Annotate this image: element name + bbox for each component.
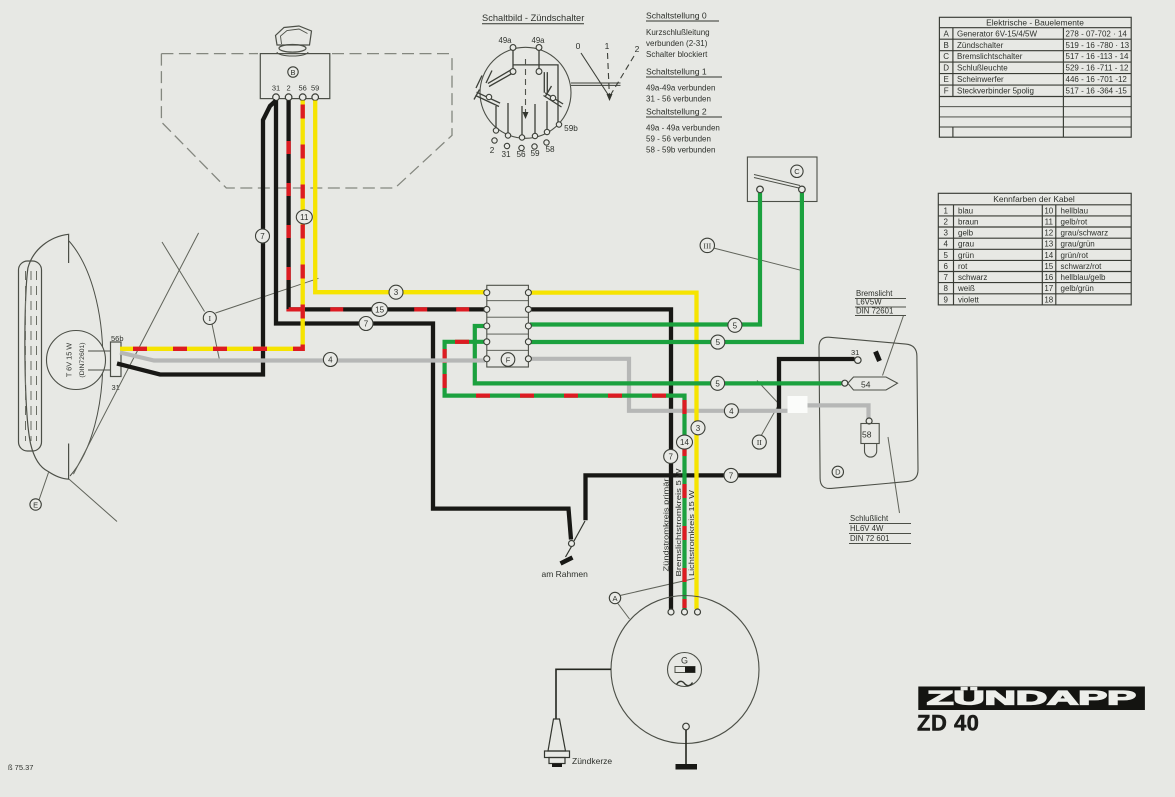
svg-text:violett: violett	[958, 295, 980, 304]
svg-text:56: 56	[516, 150, 526, 159]
svg-text:31: 31	[272, 84, 280, 93]
svg-text:D: D	[835, 468, 841, 477]
svg-text:9: 9	[943, 295, 948, 304]
svg-text:DIN 72 601: DIN 72 601	[850, 534, 889, 543]
svg-text:16: 16	[1044, 273, 1053, 282]
svg-text:C: C	[943, 52, 949, 61]
svg-text:schwarz: schwarz	[958, 273, 987, 282]
svg-text:5: 5	[715, 379, 720, 388]
svg-text:1: 1	[943, 206, 948, 215]
svg-text:braun: braun	[958, 217, 978, 226]
svg-text:4: 4	[943, 240, 948, 249]
svg-text:Schalter blockiert: Schalter blockiert	[646, 50, 708, 59]
svg-text:ß 75.37: ß 75.37	[8, 763, 33, 772]
svg-text:weiß: weiß	[957, 284, 975, 293]
svg-text:15: 15	[375, 305, 384, 314]
svg-text:517 - 16 -364 -15: 517 - 16 -364 -15	[1066, 87, 1128, 96]
svg-text:A: A	[612, 594, 617, 603]
svg-text:49a-49a verbunden: 49a-49a verbunden	[646, 84, 715, 93]
svg-text:5: 5	[943, 251, 948, 260]
svg-text:F: F	[506, 355, 511, 364]
svg-text:Schaltbild - Zündschalter: Schaltbild - Zündschalter	[482, 13, 584, 23]
svg-text:Zündstromkreis primär: Zündstromkreis primär	[662, 478, 671, 572]
svg-text:8: 8	[943, 284, 948, 293]
svg-text:59: 59	[311, 84, 319, 93]
svg-text:56b: 56b	[111, 334, 124, 343]
svg-text:31: 31	[501, 150, 511, 159]
svg-text:Kennfarben der Kabel: Kennfarben der Kabel	[993, 194, 1075, 204]
svg-text:Zündkerze: Zündkerze	[572, 756, 612, 766]
svg-text:13: 13	[1044, 240, 1053, 249]
svg-text:15: 15	[1044, 262, 1053, 271]
svg-text:58: 58	[862, 430, 872, 440]
svg-text:18: 18	[1044, 295, 1053, 304]
svg-text:A: A	[944, 29, 950, 38]
svg-text:11: 11	[1045, 217, 1054, 226]
svg-text:49a: 49a	[498, 36, 512, 45]
svg-text:B: B	[944, 41, 949, 50]
svg-text:14: 14	[1044, 251, 1053, 260]
svg-text:B: B	[290, 68, 295, 77]
svg-text:Steckverbinder 5polig: Steckverbinder 5polig	[957, 87, 1034, 96]
svg-text:schwarz/rot: schwarz/rot	[1061, 262, 1103, 271]
svg-text:278 - 07-702 · 14: 278 - 07-702 · 14	[1066, 29, 1128, 38]
svg-text:59 - 56 verbunden: 59 - 56 verbunden	[646, 135, 711, 144]
svg-text:ZD 40: ZD 40	[917, 711, 979, 736]
svg-text:31: 31	[851, 348, 859, 357]
svg-text:17: 17	[1044, 284, 1053, 293]
svg-text:D: D	[943, 64, 949, 73]
svg-text:Schlußleuchte: Schlußleuchte	[957, 64, 1008, 73]
svg-text:Bremslichtstromkreis 5 W: Bremslichtstromkreis 5 W	[674, 467, 683, 576]
svg-text:F: F	[944, 87, 949, 96]
svg-text:III: III	[703, 241, 711, 250]
svg-text:verbunden (2-31): verbunden (2-31)	[646, 39, 708, 48]
svg-text:gelb/grün: gelb/grün	[1061, 284, 1094, 293]
svg-text:7: 7	[668, 452, 673, 461]
svg-text:Zündschalter: Zündschalter	[957, 41, 1004, 50]
svg-text:519 - 16 -780 · 13: 519 - 16 -780 · 13	[1066, 41, 1130, 50]
svg-text:7: 7	[364, 320, 369, 329]
svg-text:Kurzschlußleitung: Kurzschlußleitung	[646, 28, 710, 37]
svg-text:ZÜNDAPP: ZÜNDAPP	[927, 687, 1136, 710]
svg-text:grau/schwarz: grau/schwarz	[1061, 229, 1109, 238]
svg-text:hellblau/gelb: hellblau/gelb	[1061, 273, 1106, 282]
svg-text:3: 3	[394, 288, 399, 297]
svg-text:gelb: gelb	[958, 229, 974, 238]
svg-text:4: 4	[729, 407, 734, 416]
svg-text:0: 0	[576, 41, 581, 51]
svg-text:56: 56	[299, 84, 307, 93]
svg-text:2: 2	[287, 84, 291, 93]
svg-text:49a: 49a	[531, 36, 545, 45]
svg-text:58 - 59b verbunden: 58 - 59b verbunden	[646, 146, 715, 155]
svg-text:hellblau: hellblau	[1061, 206, 1089, 215]
svg-text:2: 2	[943, 217, 948, 226]
svg-text:C: C	[794, 167, 800, 176]
svg-text:Scheinwerfer: Scheinwerfer	[957, 75, 1004, 84]
svg-text:blau: blau	[958, 206, 973, 215]
svg-text:3: 3	[696, 424, 701, 433]
svg-text:31 - 56 verbunden: 31 - 56 verbunden	[646, 95, 711, 104]
svg-text:I: I	[208, 314, 211, 323]
svg-text:am Rahmen: am Rahmen	[542, 569, 589, 579]
svg-text:7: 7	[729, 471, 734, 480]
svg-text:5: 5	[716, 338, 721, 347]
svg-text:529 - 16 -711 - 12: 529 - 16 -711 - 12	[1066, 64, 1130, 73]
svg-text:Schlußlicht: Schlußlicht	[850, 514, 889, 523]
svg-text:E: E	[944, 75, 949, 84]
svg-text:1: 1	[605, 41, 610, 51]
svg-text:HL6V 4W: HL6V 4W	[850, 524, 884, 533]
svg-text:G: G	[681, 656, 688, 666]
svg-text:Lichtstromkreis 15 W: Lichtstromkreis 15 W	[687, 489, 696, 576]
svg-text:DIN 72601: DIN 72601	[856, 307, 893, 316]
svg-text:Elektrische - Bauelemente: Elektrische - Bauelemente	[986, 18, 1084, 28]
svg-text:gelb/rot: gelb/rot	[1061, 217, 1088, 226]
svg-text:59: 59	[530, 149, 540, 158]
svg-text:2: 2	[635, 44, 640, 54]
svg-text:11: 11	[300, 213, 309, 222]
svg-text:49a - 49a verbunden: 49a - 49a verbunden	[646, 124, 720, 133]
svg-text:Bremslichtschalter: Bremslichtschalter	[957, 52, 1023, 61]
svg-text:grau/grün: grau/grün	[1061, 240, 1095, 249]
svg-text:grau: grau	[958, 240, 974, 249]
svg-text:(DIN72601): (DIN72601)	[79, 342, 86, 377]
svg-text:grün: grün	[958, 251, 974, 260]
svg-text:E: E	[33, 500, 38, 509]
svg-text:7: 7	[943, 273, 948, 282]
svg-text:58: 58	[545, 145, 555, 154]
svg-text:59b: 59b	[564, 124, 578, 133]
svg-text:4: 4	[328, 356, 333, 365]
svg-text:grün/rot: grün/rot	[1061, 251, 1089, 260]
svg-text:Generator 6V-15/4/5W: Generator 6V-15/4/5W	[957, 29, 1037, 38]
svg-text:Schaltstellung 1: Schaltstellung 1	[646, 67, 707, 77]
svg-text:14: 14	[680, 438, 689, 447]
svg-text:6: 6	[943, 262, 948, 271]
svg-text:Schaltstellung 0: Schaltstellung 0	[646, 11, 707, 21]
svg-text:54: 54	[861, 380, 871, 390]
svg-text:II: II	[757, 438, 763, 447]
svg-text:Schaltstellung 2: Schaltstellung 2	[646, 107, 707, 117]
svg-text:12: 12	[1044, 229, 1053, 238]
svg-text:2: 2	[490, 146, 495, 155]
svg-text:10: 10	[1044, 206, 1053, 215]
svg-text:7: 7	[260, 232, 265, 241]
svg-text:rot: rot	[958, 262, 968, 271]
svg-text:517 - 16 -113 - 14: 517 - 16 -113 - 14	[1066, 52, 1130, 61]
svg-text:3: 3	[943, 229, 948, 238]
svg-text:T 6V 15 W: T 6V 15 W	[65, 343, 74, 377]
svg-text:5: 5	[733, 321, 738, 330]
svg-text:446 - 16 -701 -12: 446 - 16 -701 -12	[1066, 75, 1128, 84]
